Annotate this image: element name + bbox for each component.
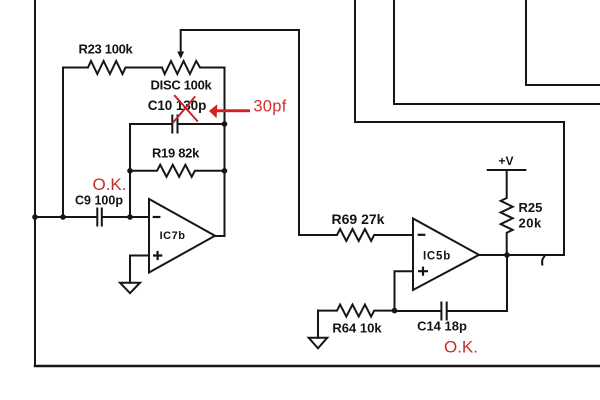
wire IC5b output xyxy=(479,254,564,256)
annotation red arrow xyxy=(209,104,250,118)
node dot R19-right xyxy=(222,168,228,174)
svg-text:R23 100k: R23 100k xyxy=(79,42,134,57)
svg-text:O.K.: O.K. xyxy=(444,338,478,357)
svg-text:20k: 20k xyxy=(519,216,542,231)
annotation red X over 130p xyxy=(173,96,197,123)
node dot IC5b-plus xyxy=(392,308,398,314)
wire IC5b plus input xyxy=(395,271,414,310)
ground under R64 xyxy=(309,338,328,349)
resistor R23 xyxy=(63,61,162,74)
pin plus IC7b xyxy=(153,251,162,260)
node dot input-left xyxy=(32,214,38,220)
node dot C9-left xyxy=(60,214,66,220)
wire DISC wiper xyxy=(181,30,299,235)
resistor R25 xyxy=(501,170,513,255)
capacitor C14 xyxy=(395,303,508,320)
node dot minus-junction xyxy=(127,214,133,220)
pin minus IC7b xyxy=(153,216,161,218)
resistor R64 xyxy=(318,305,395,317)
svg-text:+V: +V xyxy=(498,154,513,168)
svg-text:C10 130p: C10 130p xyxy=(148,98,207,113)
capacitor C9 xyxy=(35,209,149,226)
svg-text:IC7b: IC7b xyxy=(160,230,186,242)
pin minus IC5b xyxy=(418,234,426,236)
wire vertical x224 (feedback right) xyxy=(224,68,226,237)
node dot R19-left xyxy=(127,168,133,174)
svg-text:DISC 100k: DISC 100k xyxy=(151,78,213,93)
ground under IC7b xyxy=(120,283,140,294)
svg-text:R64 10k: R64 10k xyxy=(332,321,382,336)
power +V bar xyxy=(488,169,526,171)
resistor DISC (potentiometer) xyxy=(162,61,225,74)
node dot C10-right xyxy=(222,121,228,127)
resistor R69 xyxy=(299,229,413,241)
wire left border vertical xyxy=(34,0,36,366)
op-amp U-IC5b triangle xyxy=(413,219,479,291)
node dot output-R25 xyxy=(504,252,510,258)
svg-text:R19 82k: R19 82k xyxy=(152,146,200,161)
wire IC7b plus input xyxy=(130,256,149,283)
wire R64 to ground xyxy=(317,311,319,338)
svg-text:30pf: 30pf xyxy=(253,98,286,116)
wire vertical x130 (feedback left) xyxy=(129,124,131,217)
svg-text:C14 18p: C14 18p xyxy=(417,319,467,334)
op-amp U-IC7b triangle xyxy=(149,199,215,273)
wire bottom border horizontal xyxy=(35,365,600,368)
svg-text:O.K.: O.K. xyxy=(92,175,126,194)
wiper arrowhead xyxy=(177,52,184,59)
svg-text:R25: R25 xyxy=(519,200,543,215)
wire vertical x63 xyxy=(62,68,64,218)
svg-text:C9 100p: C9 100p xyxy=(75,194,123,208)
wire top-right L1 xyxy=(526,0,600,85)
svg-text:IC5b: IC5b xyxy=(423,251,451,263)
pin plus IC5b xyxy=(418,267,428,276)
capacitor C10 xyxy=(130,116,225,133)
wire output down to C14 xyxy=(506,255,508,311)
wire top-right L2 xyxy=(394,0,600,104)
wire hop mark near output xyxy=(542,256,545,266)
wire top-right L3 xyxy=(355,0,564,255)
wire IC7b output xyxy=(215,235,225,237)
svg-text:R69 27k: R69 27k xyxy=(332,211,385,227)
resistor R19 xyxy=(130,165,225,177)
